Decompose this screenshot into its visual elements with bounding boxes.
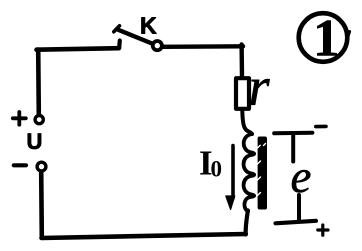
switch contact tick	[117, 41, 122, 48]
wire resistor to coil	[242, 111, 252, 135]
core hatch slits	[257, 144, 266, 197]
svg-text:0: 0	[211, 157, 223, 182]
current arrow I0 (line)	[231, 146, 235, 199]
svg-text:r: r	[249, 57, 271, 117]
resistor r (box)	[236, 78, 249, 109]
svg-text:U: U	[27, 129, 43, 154]
EMF e: top bar	[274, 131, 312, 136]
plus sign (U)	[13, 112, 26, 125]
switch blade end tick	[114, 26, 120, 32]
wire coil to bottom-right corner	[246, 211, 248, 235]
switch K blade	[118, 30, 153, 44]
minus sign (e)	[316, 125, 326, 129]
wire right vertical (corner down to resistor)	[239, 45, 244, 78]
EMF e: top stub	[291, 134, 295, 162]
inductor L (coil, primary winding)	[244, 134, 255, 211]
wire left vertical (bottom section)	[39, 172, 44, 237]
wire top-left horizontal (corner to switch contact)	[37, 48, 120, 50]
current arrow I0 (head)	[226, 196, 235, 210]
EMF e: bottom bar	[276, 221, 317, 224]
switch hinge circle	[153, 41, 162, 50]
svg-text:K: K	[140, 13, 157, 39]
circle nib	[347, 32, 350, 42]
wire top-right horizontal (switch to top-right corner)	[163, 44, 244, 49]
iron core bar (secondary)	[258, 137, 267, 210]
svg-text:1: 1	[313, 10, 340, 68]
minus sign (U)	[14, 163, 26, 167]
figure number circle	[299, 13, 348, 62]
wire bottom horizontal	[42, 234, 246, 238]
EMF e: bottom stub	[297, 195, 301, 221]
terminal circle bottom (U -)	[37, 162, 46, 171]
plus sign (e)	[318, 225, 328, 235]
wire left vertical (top section, source to top-left corner)	[36, 50, 41, 115]
terminal circle top (U +)	[35, 116, 43, 124]
